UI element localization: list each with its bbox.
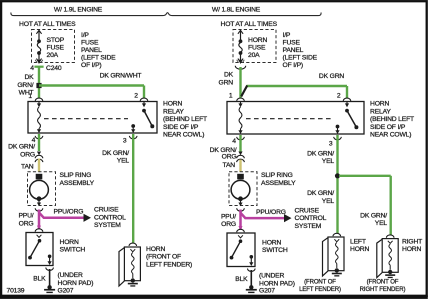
svg-text:CONTROL: CONTROL — [94, 214, 126, 221]
label DK GRN/ORG (right) — [210, 147, 237, 161]
relay switch contact (pins 2-3) — [131, 102, 154, 134]
horn switch box (left) — [26, 233, 53, 266]
svg-text:(FRONT OF: (FRONT OF — [146, 254, 181, 261]
fuse HORN 20A right (1.8L) — [238, 30, 268, 62]
svg-text:ASSEMBLY: ASSEMBLY — [60, 180, 95, 187]
connector below fuse (pin 4) left (1.9L) — [34, 60, 43, 68]
svg-text:GRN/: GRN/ — [17, 82, 33, 89]
label TAN (right) — [223, 162, 236, 169]
connector into horn switch (right) — [237, 226, 245, 232]
relay pin 2 connector — [134, 93, 148, 102]
svg-text:BLK: BLK — [33, 275, 46, 282]
svg-text:OF I/P): OF I/P) — [283, 62, 304, 69]
label (FRONT OF LEFT FENDER) (left horn) — [299, 280, 341, 294]
label I/P fuse panel right (1.8L) — [283, 32, 318, 69]
connector into right horn — [386, 235, 394, 238]
svg-text:YEL: YEL — [322, 158, 335, 165]
relay coil (pins 1-4) — [37, 102, 41, 134]
wire DK GRN/ORG from relay pin 4 — [38, 134, 40, 151]
relay pin 3 connector — [123, 136, 137, 145]
inline connector green-to-tan — [35, 152, 43, 163]
wire TAN into slip ring (right) — [239, 160, 241, 173]
wire DK GRN/WHT horizontal to relay pin 2 — [39, 86, 144, 99]
relay pin 3 connector (right) — [329, 137, 341, 148]
svg-text:FUSE: FUSE — [283, 40, 301, 47]
relay switch contact (right) — [335, 102, 358, 135]
svg-text:DK GRN/: DK GRN/ — [102, 150, 129, 157]
label DK GRN (horizontal, right) — [319, 73, 344, 80]
svg-text:70139: 70139 — [7, 287, 25, 294]
label PPU/ORG (vertical, left) — [18, 213, 33, 228]
label BLK (right) — [235, 276, 248, 283]
svg-text:HORN: HORN — [262, 239, 281, 246]
label (FRONT OF RIGHT FENDER) (right horn) — [360, 280, 406, 294]
svg-text:ORG: ORG — [221, 221, 236, 228]
label DK GRN/WHT (vertical wire) — [17, 74, 34, 96]
connector below horn switch (right) — [248, 269, 256, 272]
wire TAN into slip ring — [38, 159, 40, 173]
svg-text:HOT AT ALL TIMES: HOT AT ALL TIMES — [221, 21, 278, 28]
svg-text:LEFT FENDER): LEFT FENDER) — [299, 287, 341, 293]
svg-text:ORG: ORG — [20, 151, 35, 158]
svg-text:PPU/: PPU/ — [221, 213, 236, 220]
relay pin 4 connector (right) — [232, 137, 244, 145]
header W/ 1.8L ENGINE — [212, 7, 261, 14]
slip ring symbol (right) — [231, 174, 250, 207]
label DK GRN/YEL (left) — [102, 150, 129, 165]
svg-text:SWITCH: SWITCH — [60, 247, 86, 254]
svg-text:(BEHIND LEFT: (BEHIND LEFT — [370, 116, 414, 123]
svg-text:SYSTEM: SYSTEM — [94, 222, 121, 229]
fuse STOP 20A left (1.9L) — [36, 30, 64, 62]
fuse panel dashed box left (1.9L) — [32, 30, 75, 63]
svg-text:LEFT: LEFT — [350, 238, 366, 245]
junction on DK GRN/WHT wire — [36, 83, 41, 88]
svg-text:DK GRN/: DK GRN/ — [307, 151, 334, 158]
label DK GRN/YEL upper (right) — [307, 151, 334, 166]
svg-text:RIGHT FENDER): RIGHT FENDER) — [360, 287, 406, 293]
svg-text:SWITCH: SWITCH — [262, 247, 288, 254]
label CRUISE CONTROL SYSTEM (left) — [94, 207, 126, 229]
svg-text:(LEFT SIDE: (LEFT SIDE — [81, 55, 116, 62]
relay pin 1 connector — [28, 93, 42, 101]
horn switch contacts (right) — [230, 235, 254, 266]
svg-text:HORN: HORN — [350, 246, 369, 253]
slip ring assembly box (left) — [28, 172, 56, 206]
svg-text:PANEL: PANEL — [81, 47, 102, 54]
label HORN SWITCH (left) — [60, 239, 86, 254]
junction on DK GRN/YEL wire (right) — [335, 173, 340, 178]
label RIGHT HORN — [402, 238, 422, 253]
ground G207 (right) — [246, 285, 257, 293]
wire DK GRN/YEL branch to right horn — [339, 176, 391, 235]
svg-text:HORN: HORN — [402, 246, 421, 253]
svg-text:HORN: HORN — [60, 239, 79, 246]
svg-text:1: 1 — [229, 92, 233, 99]
svg-text:C240: C240 — [46, 65, 62, 72]
svg-text:FUSE: FUSE — [248, 44, 266, 51]
horn symbol (left section) — [119, 247, 140, 287]
left horn symbol (right section) — [323, 237, 345, 277]
svg-text:HORN: HORN — [146, 246, 165, 253]
connector below horn switch (left) — [46, 268, 54, 271]
connector into left horn (right section) — [333, 233, 341, 236]
arrow to cruise control system (left) — [84, 214, 92, 222]
svg-text:YEL: YEL — [322, 198, 335, 205]
svg-text:PANEL: PANEL — [283, 47, 304, 54]
svg-text:20A: 20A — [47, 52, 59, 59]
svg-text:TAN: TAN — [21, 164, 34, 171]
wire PPU/ORG vertical (right) — [239, 210, 242, 230]
svg-text:RIGHT: RIGHT — [402, 238, 422, 245]
wire BLK to ground (right) — [250, 270, 252, 286]
svg-text:HORN: HORN — [163, 101, 182, 108]
connector below slip ring (left) — [35, 208, 43, 211]
svg-text:SYSTEM: SYSTEM — [295, 223, 322, 230]
svg-text:4: 4 — [232, 138, 236, 145]
label SLIP RING ASSEMBLY (right) — [261, 172, 296, 187]
connector below fuse (pin 4) right (1.8L) — [235, 60, 245, 69]
svg-text:2: 2 — [134, 93, 138, 100]
ground G207 (left) — [44, 285, 55, 293]
label HORN RELAY (left) — [163, 101, 207, 139]
label (UNDER HORN PAD) G207 (left) — [58, 272, 94, 294]
slip ring symbol (left) — [30, 174, 49, 207]
brace under engine headers — [11, 13, 321, 16]
relay pin 2 connector (right) — [337, 93, 351, 102]
wire DK GRN horizontal to relay pin 2 (right) — [241, 86, 347, 99]
svg-text:W/ 1.9L ENGINE: W/ 1.9L ENGINE — [54, 7, 103, 14]
svg-text:DK GRN/: DK GRN/ — [8, 144, 35, 151]
svg-text:CONTROL: CONTROL — [295, 215, 327, 222]
svg-text:OF I/P): OF I/P) — [81, 62, 102, 69]
label PPU/ORG (branch, right) — [256, 209, 286, 216]
svg-text:YEL: YEL — [117, 158, 130, 165]
svg-text:BLK: BLK — [235, 276, 248, 283]
header W/ 1.9L ENGINE — [54, 7, 103, 14]
svg-text:I/P: I/P — [81, 32, 89, 39]
svg-text:W/ 1.8L ENGINE: W/ 1.8L ENGINE — [212, 7, 261, 14]
label (UNDER HORN PAD) G207 (right) — [259, 273, 295, 295]
label DK GRN/YEL middle (right) — [307, 190, 334, 205]
wire DK GRN/WHT vertical from fuse to relay pin 1 — [38, 67, 40, 98]
svg-text:1: 1 — [28, 93, 32, 100]
horn relay box left — [28, 102, 157, 134]
svg-text:HOT AT ALL TIMES: HOT AT ALL TIMES — [19, 21, 76, 28]
label CRUISE CONTROL SYSTEM (right) — [295, 207, 327, 229]
svg-text:CRUISE: CRUISE — [94, 207, 119, 214]
horn switch contacts (left) — [28, 235, 52, 265]
label DK GRN/YEL branch (right horn) — [360, 212, 387, 227]
svg-text:STOP: STOP — [47, 37, 65, 44]
svg-text:HORN: HORN — [248, 37, 267, 44]
label LEFT HORN — [350, 238, 369, 253]
wire PPU/ORG branch to cruise control (left) — [39, 213, 84, 218]
label SLIP RING ASSEMBLY (left) — [60, 172, 95, 187]
svg-text:HORN: HORN — [370, 101, 389, 108]
svg-text:(UNDER: (UNDER — [58, 272, 83, 279]
label I/P fuse panel left (1.9L) — [81, 32, 116, 69]
svg-text:FUSE: FUSE — [81, 40, 99, 47]
label HORN RELAY (right) — [370, 101, 414, 139]
connector into horn switch (left) — [35, 226, 43, 232]
svg-text:ORG: ORG — [19, 220, 34, 227]
svg-text:ORG: ORG — [222, 154, 237, 161]
svg-text:3: 3 — [329, 141, 333, 148]
label DK GRN/ORG — [8, 144, 35, 159]
wire DK GRN/ORG from relay pin 4 (right) — [239, 135, 241, 152]
label PPU/ORG (vertical, right) — [221, 213, 236, 228]
wire DK GRN vertical from fuse to relay pin 1 (right) — [239, 67, 241, 98]
label HOT AT ALL TIMES right (1.8L) — [221, 21, 278, 28]
arrow to cruise control system (right) — [284, 214, 292, 222]
svg-text:20A: 20A — [248, 52, 260, 59]
svg-text:(UNDER: (UNDER — [259, 273, 284, 280]
drawing number 70139 — [7, 287, 25, 294]
svg-text:PPU/ORG: PPU/ORG — [256, 209, 286, 216]
relay dashed actuator line — [44, 118, 128, 120]
fuse panel dashed box right (1.8L) — [233, 30, 276, 63]
wire DK GRN/YEL from relay pin 3 (right) — [336, 135, 338, 234]
svg-text:DK GRN: DK GRN — [319, 73, 344, 80]
svg-text:(BEHIND LEFT: (BEHIND LEFT — [163, 116, 207, 123]
svg-text:FUSE: FUSE — [47, 44, 65, 51]
svg-text:RELAY: RELAY — [370, 108, 391, 115]
svg-text:NEAR COWL): NEAR COWL) — [163, 132, 204, 139]
horn relay box right — [227, 102, 364, 135]
svg-text:SLIP RING: SLIP RING — [261, 172, 293, 179]
relay dashed actuator line (right) — [246, 118, 331, 120]
label TAN — [21, 164, 34, 171]
slip ring assembly box (right) — [229, 172, 257, 206]
svg-text:SIDE OF I/P: SIDE OF I/P — [370, 124, 406, 131]
svg-text:YEL: YEL — [375, 220, 388, 227]
connector into horn (left) — [129, 243, 137, 246]
inline connector green-to-tan (right) — [237, 152, 245, 163]
svg-text:ASSEMBLY: ASSEMBLY — [261, 180, 296, 187]
svg-text:RELAY: RELAY — [163, 108, 184, 115]
relay coil (right) — [238, 102, 242, 135]
svg-text:G207: G207 — [58, 287, 74, 294]
svg-text:CRUISE: CRUISE — [295, 207, 320, 214]
svg-text:I/P: I/P — [283, 32, 291, 39]
wire BLK to ground (left) — [49, 269, 51, 286]
svg-text:PPU/: PPU/ — [18, 213, 33, 220]
label DK GRN/WHT (horizontal wire) — [100, 72, 142, 79]
wire PPU/ORG vertical (left) — [38, 210, 41, 229]
wire PPU/ORG branch to cruise control (right) — [241, 213, 285, 218]
svg-text:(LEFT SIDE: (LEFT SIDE — [283, 55, 318, 62]
label HORN SWITCH (right) — [262, 239, 288, 254]
svg-text:HORN PAD): HORN PAD) — [58, 280, 94, 287]
svg-text:DK GRN/: DK GRN/ — [307, 190, 334, 197]
svg-text:SIDE OF I/P: SIDE OF I/P — [163, 124, 199, 131]
svg-text:PPU/ORG: PPU/ORG — [54, 209, 84, 216]
svg-text:GRN: GRN — [219, 80, 234, 87]
svg-text:TAN: TAN — [223, 162, 236, 169]
label BLK (left) — [33, 275, 46, 282]
connector below slip ring (right) — [237, 208, 245, 211]
label PPU/ORG (branch, left) — [54, 209, 84, 216]
svg-text:DK: DK — [224, 72, 234, 79]
relay pin 4 connector — [32, 136, 43, 144]
label HOT AT ALL TIMES left (1.9L) — [19, 21, 76, 28]
svg-text:LEFT FENDER): LEFT FENDER) — [146, 261, 192, 268]
svg-text:4: 4 — [30, 65, 34, 72]
label DK GRN (vertical, right) — [219, 72, 234, 87]
svg-text:(FRONT OF: (FRONT OF — [367, 280, 399, 286]
svg-text:(FRONT OF: (FRONT OF — [304, 280, 336, 286]
label HORN (FRONT OF LEFT FENDER) (left) — [146, 246, 192, 268]
svg-text:DK GRN/WHT: DK GRN/WHT — [100, 72, 142, 79]
svg-text:NEAR COWL): NEAR COWL) — [370, 132, 411, 139]
label 4 / C240 connector — [30, 65, 62, 72]
svg-text:HORN PAD): HORN PAD) — [259, 280, 295, 287]
svg-text:2: 2 — [337, 93, 341, 100]
svg-text:3: 3 — [123, 138, 127, 145]
svg-text:G207: G207 — [259, 288, 275, 295]
horn switch box (right) — [227, 233, 255, 267]
svg-text:DK GRN/: DK GRN/ — [360, 212, 387, 219]
relay pin 1 connector (right) — [229, 92, 244, 101]
right horn symbol — [377, 239, 398, 278]
svg-text:SLIP RING: SLIP RING — [60, 172, 92, 179]
wire DK GRN/YEL from relay pin 3 to horn (left) — [132, 134, 134, 244]
svg-text:DK: DK — [24, 74, 34, 81]
